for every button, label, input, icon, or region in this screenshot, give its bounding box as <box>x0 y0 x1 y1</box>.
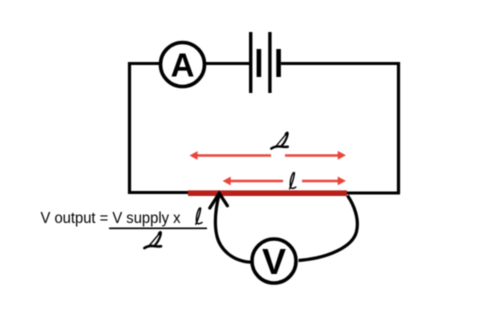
svg-text:V: V <box>262 241 286 282</box>
wire battery to top-right corner <box>281 62 397 65</box>
battery cell 2 positive plate <box>268 32 271 93</box>
label l (script ell) on lower arrow <box>290 173 296 189</box>
resistance slide wire <box>188 190 347 196</box>
dimension arrow L right half <box>285 151 346 160</box>
svg-text:A: A <box>171 47 195 84</box>
wire ammeter to battery <box>205 62 250 65</box>
battery cell 1 negative plate <box>257 49 262 77</box>
svg-text:V output = V supply x: V output = V supply x <box>41 210 181 227</box>
label L (script) above upper arrow <box>271 133 288 149</box>
dimension arrow L left half <box>190 151 272 160</box>
jockey contact arrow head <box>210 193 228 208</box>
wire bottom-left segment <box>128 191 190 194</box>
ammeter A <box>161 43 205 87</box>
formula numerator script ell <box>196 208 202 224</box>
wire top-left segment <box>130 62 161 65</box>
battery cell 2 negative plate <box>276 49 281 77</box>
voltmeter V <box>252 239 296 283</box>
formula fraction bar <box>109 227 207 229</box>
wire bottom-right segment <box>346 192 400 195</box>
dimension arrow l right half <box>302 177 346 186</box>
dimension arrow l left half <box>223 177 283 186</box>
battery cell 1 positive plate <box>249 32 252 93</box>
jockey contact arrow shaft / voltmeter left lead wire <box>215 194 250 262</box>
wire left vertical <box>128 62 131 194</box>
wire right vertical <box>397 62 400 193</box>
voltmeter right lead wire <box>299 196 358 261</box>
formula denominator script L <box>144 232 161 248</box>
